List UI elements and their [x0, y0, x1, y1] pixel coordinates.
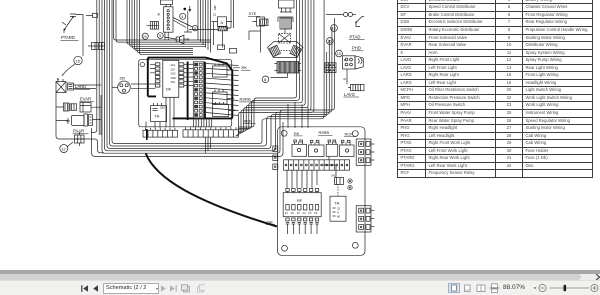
first page button	[81, 285, 88, 292]
node 9	[192, 26, 197, 31]
node 16	[326, 38, 333, 45]
relay RSRB	[213, 90, 235, 105]
svg-text:15: 15	[337, 52, 341, 56]
motor yoke	[268, 42, 304, 58]
svg-text:RSRB: RSRB	[319, 131, 330, 135]
label PTAD	[349, 34, 365, 39]
svg-text:PTAD: PTAD	[350, 34, 361, 39]
zoom out button	[539, 285, 546, 292]
svg-text:STE: STE	[249, 11, 257, 16]
right connector block lower	[356, 206, 374, 232]
starter motor top box	[279, 0, 295, 12]
wire motor to node 8	[271, 73, 288, 78]
label RK	[233, 65, 251, 70]
svg-text:F2: F2	[291, 212, 295, 215]
next page button (disabled)	[161, 285, 166, 292]
horizontal scrollbar thumb	[0, 274, 581, 280]
wires terminal strip to RF	[287, 170, 317, 188]
small device MC	[332, 174, 344, 185]
label RSRB	[239, 97, 255, 102]
connector grid	[325, 63, 336, 73]
pump PAAR	[66, 114, 93, 126]
svg-text:F4: F4	[303, 212, 307, 215]
wire	[62, 64, 75, 76]
solenoid valve EVAR	[64, 103, 92, 113]
fuse box A	[213, 13, 227, 27]
svg-text:F6: F6	[314, 212, 318, 215]
scrolling page view icon (active)	[449, 284, 460, 293]
node 12	[60, 142, 73, 153]
svg-text:TA: TA	[155, 114, 160, 119]
wire	[82, 15, 84, 56]
dropdown caret	[534, 288, 537, 290]
svg-text:29: 29	[143, 35, 147, 39]
solenoid	[278, 17, 293, 29]
distributor STE box	[249, 17, 268, 53]
label RCF	[243, 119, 256, 124]
label PAAR	[73, 129, 89, 134]
svg-text:B: B	[57, 77, 59, 81]
field box dashed	[279, 29, 291, 43]
svg-text:4: 4	[181, 15, 183, 19]
svg-text:21A: 21A	[171, 63, 176, 67]
wire	[100, 95, 102, 135]
svg-text:RCF: RCF	[345, 133, 353, 137]
svg-text:21F: 21F	[171, 67, 176, 71]
cable TRC arc	[146, 154, 277, 227]
node 8	[262, 76, 269, 83]
pin strip pin fills	[195, 64, 197, 66]
rear light LARD	[56, 77, 74, 93]
label EVAR	[80, 97, 95, 102]
label LAVG	[344, 92, 360, 97]
svg-text:DF: DF	[166, 87, 172, 92]
wire TA to terminal	[322, 157, 336, 178]
connector on bus	[88, 43, 105, 50]
svg-text:2NL: 2NL	[171, 80, 176, 84]
wire verticals far left of bundle	[92, 0, 100, 135]
wire down from headlight	[344, 69, 348, 84]
label RCF panel	[344, 133, 355, 137]
svg-text:PAAR: PAAR	[73, 129, 84, 134]
label RK panel	[294, 132, 303, 136]
relay RK	[213, 64, 233, 78]
slider thumb	[564, 285, 567, 291]
status bar	[0, 280, 600, 295]
work light LAVG	[348, 84, 364, 90]
svg-text:F3: F3	[297, 212, 301, 215]
pin strip dark column	[203, 62, 206, 118]
node 15	[74, 56, 82, 64]
wire	[86, 13, 98, 17]
duct divider wires	[206, 137, 211, 153]
svg-text:250: 250	[120, 77, 126, 81]
label PHD	[352, 46, 364, 51]
node 5	[157, 33, 163, 39]
connector boxes on bus	[218, 45, 237, 53]
distributor DF	[155, 60, 184, 97]
separator band	[0, 270, 600, 275]
last page button (disabled)	[170, 285, 177, 292]
svg-text:MB: MB	[213, 6, 217, 11]
brush right	[290, 45, 301, 56]
control module frame	[139, 59, 232, 127]
svg-text:2NC: 2NC	[171, 72, 176, 76]
connector below PAAR	[75, 132, 85, 146]
switch PTAD	[355, 17, 364, 27]
svg-text:EVAR: EVAR	[80, 97, 91, 102]
connector B (top center)	[158, 0, 173, 40]
label TRC	[266, 221, 275, 225]
svg-text:TRC: TRC	[267, 221, 275, 225]
svg-text:15: 15	[75, 58, 80, 63]
svg-text:9: 9	[194, 27, 196, 31]
panel left edge pins	[273, 146, 278, 170]
svg-text:13: 13	[332, 27, 336, 31]
node 13	[331, 25, 338, 32]
wire bundle verticals feeding horizontal bus	[114, 0, 212, 55]
svg-text:8: 8	[264, 78, 266, 82]
terminal strip on panel	[284, 160, 350, 170]
svg-text:16: 16	[327, 40, 331, 44]
wire slants from connector B	[173, 11, 192, 33]
connector 250	[112, 77, 130, 94]
relay RCF on panel	[340, 140, 355, 156]
svg-text:60: 60	[337, 215, 341, 219]
label PTARD	[61, 35, 79, 40]
wire loops from top to lower connector strips	[236, 0, 314, 135]
right connector block upper	[356, 139, 374, 165]
svg-text:250: 250	[160, 106, 165, 110]
wires DF right pins to pin strip	[184, 64, 194, 85]
connector 4-cell left of B	[147, 22, 159, 30]
node 29	[142, 33, 148, 39]
svg-text:B: B	[158, 13, 160, 17]
svg-text:RCF: RCF	[244, 119, 253, 124]
heavy bus wires	[148, 58, 233, 120]
node 4	[180, 13, 186, 19]
svg-text:PHD: PHD	[352, 46, 361, 51]
svg-text:M: M	[344, 77, 347, 81]
arrow down	[189, 6, 191, 11]
wires DF left pins	[131, 64, 155, 88]
headlight PHD	[343, 56, 364, 69]
svg-text:12: 12	[61, 146, 66, 151]
two page view icon	[477, 285, 485, 292]
horn GB	[164, 35, 190, 44]
node 15b	[336, 50, 343, 57]
continuous view icon	[490, 284, 500, 293]
brush left	[270, 45, 281, 56]
svg-text:F1: F1	[285, 212, 289, 215]
connector strip lower left	[143, 128, 178, 137]
pin strip connector	[193, 62, 205, 118]
fuse block RF	[283, 189, 321, 229]
page number box	[103, 283, 159, 295]
svg-text:RSRB: RSRB	[240, 97, 251, 102]
wires module to lower strips	[146, 97, 212, 128]
connector strip lower right	[183, 127, 239, 137]
wire stubs to panel top	[288, 102, 308, 128]
svg-text:GB: GB	[184, 38, 190, 42]
relay mid on panel	[309, 140, 325, 156]
wire	[56, 136, 104, 153]
svg-text:RK: RK	[294, 132, 300, 136]
armature winding	[275, 62, 302, 74]
scroll right arrow	[593, 272, 600, 282]
relay RSRB on panel	[326, 140, 338, 156]
next view icon (disabled)	[198, 285, 206, 292]
svg-text:LAVG: LAVG	[344, 92, 355, 97]
svg-text:F5: F5	[309, 212, 313, 215]
previous view icon	[182, 285, 190, 292]
label STE	[248, 11, 260, 16]
svg-text:PTARD: PTARD	[61, 35, 75, 40]
svg-text:RF: RF	[297, 199, 303, 203]
svg-text:21: 21	[213, 13, 217, 17]
wires under RF	[288, 228, 318, 234]
svg-text:M: M	[344, 58, 346, 62]
junction dot	[184, 8, 186, 10]
zoom slider	[550, 287, 590, 289]
relay panel frame	[278, 127, 366, 256]
panel screws	[281, 130, 358, 251]
wire bundle left verticals into bottom loops	[102, 0, 335, 153]
svg-text:TA: TA	[335, 201, 340, 206]
svg-text:A: A	[221, 21, 224, 25]
wire verticals top center	[198, 0, 211, 53]
panel screws small	[348, 179, 352, 190]
svg-text:2ND: 2ND	[171, 76, 176, 80]
outermost routing loop	[92, 122, 284, 156]
relay RK on panel	[292, 140, 307, 156]
wire	[56, 85, 101, 136]
timer TA	[151, 103, 167, 122]
relay RCF	[213, 102, 236, 117]
svg-text:MC: MC	[332, 174, 336, 178]
label RSRB panel	[318, 131, 333, 135]
timer TA on panel	[330, 185, 346, 222]
zoom percent	[503, 284, 525, 291]
wire verticals near fuse A	[189, 0, 234, 45]
single page view icon	[465, 285, 471, 292]
heavy pin mark	[146, 129, 148, 140]
horizontal scrollbar track	[570, 274, 600, 280]
switch PTARD	[62, 14, 83, 33]
label LARD	[75, 84, 91, 89]
wire to PTAD	[326, 12, 356, 16]
fuse hatch below A	[212, 22, 233, 48]
previous page button	[93, 285, 98, 292]
svg-text:RK: RK	[242, 65, 248, 70]
fan wires from pin strip	[206, 64, 239, 116]
zoom in button	[591, 285, 598, 292]
svg-text:5: 5	[159, 34, 161, 38]
